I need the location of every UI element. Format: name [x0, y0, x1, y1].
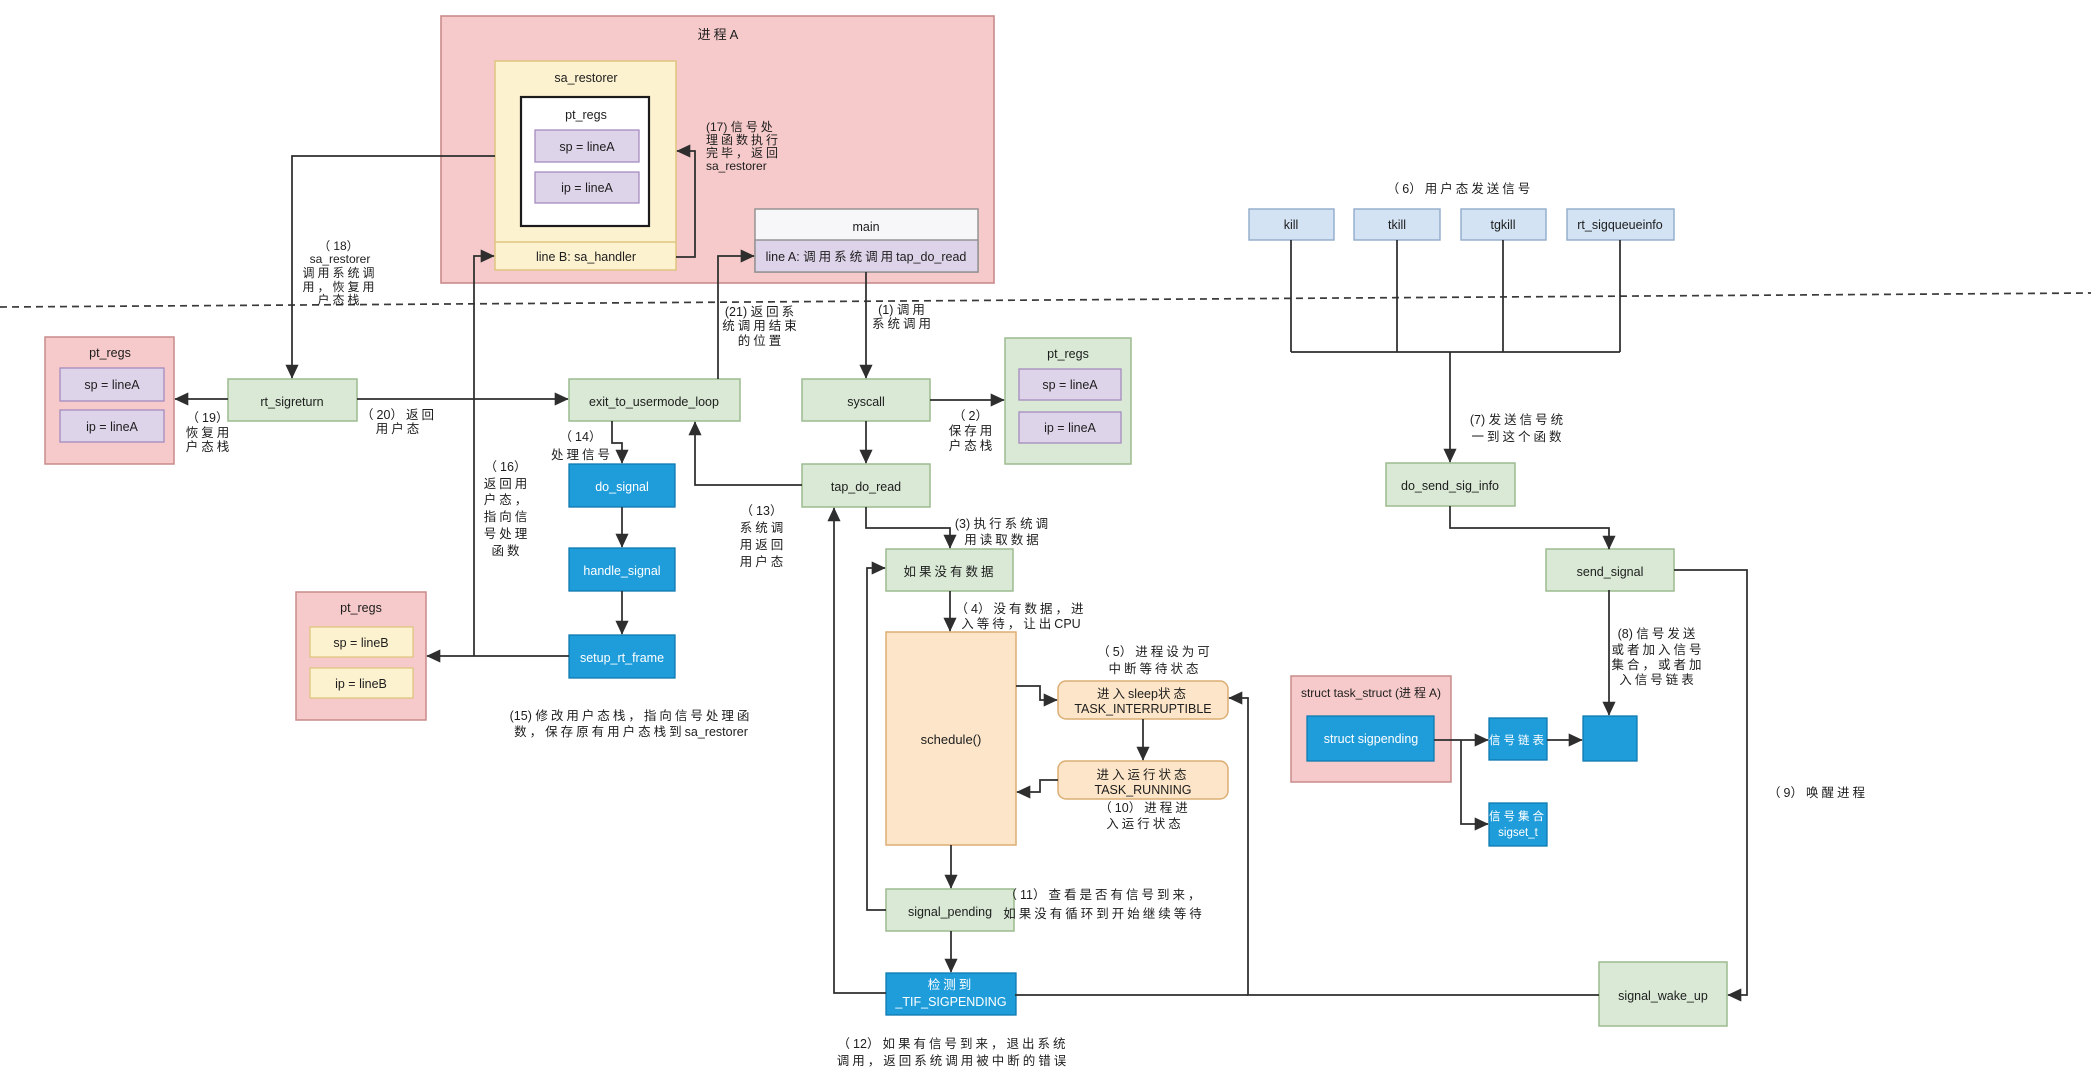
wire kill down — [1290, 240, 1292, 352]
svg-text:（19）: （19） — [187, 411, 232, 425]
wire handle_signal to setup_rt_frame — [621, 591, 623, 634]
svg-text:(15) 修改用户态栈，指向信号处理函: (15) 修改用户态栈，指向信号处理函 — [510, 708, 753, 723]
wire (11) signal_pending loop back to 如果没有数据 — [867, 568, 886, 910]
wire schedule to TASK_INTERRUPTIBLE — [1016, 686, 1057, 700]
wire (1) main to syscall — [865, 272, 867, 378]
svg-text:户态栈: 户态栈 — [949, 438, 996, 453]
box struct task_struct (进程A) — [1291, 676, 1451, 782]
wire rt_sigqueueinfo down — [1619, 240, 1621, 352]
svg-text:pt_regs: pt_regs — [340, 601, 382, 615]
box tgkill — [1461, 209, 1546, 240]
svg-text:(8) 信号发送: (8) 信号发送 — [1618, 626, 1699, 641]
svg-text:完毕，返回: 完毕，返回 — [706, 145, 781, 160]
svg-text:send_signal: send_signal — [1577, 565, 1644, 579]
wire 如果没有数据 to schedule — [949, 591, 951, 631]
field ip = lineA — [535, 172, 639, 203]
box tap_do_read — [802, 464, 930, 507]
svg-text:调用系统调: 调用系统调 — [302, 266, 377, 280]
wire setup_rt_frame to pt_regs lineB — [427, 655, 569, 657]
svg-text:（10）进程进: （10）进程进 — [1099, 800, 1190, 815]
wire (8) send_signal to signal node — [1608, 590, 1610, 715]
svg-text:如果没有循环到开始继续等待: 如果没有循环到开始继续等待 — [1003, 906, 1205, 921]
box setup_rt_frame — [569, 635, 675, 678]
box TASK_RUNNING — [1058, 761, 1228, 799]
box 信号链表 (signal list) — [1489, 718, 1547, 760]
svg-text:tap_do_read: tap_do_read — [831, 480, 901, 494]
svg-text:系统调用: 系统调用 — [872, 317, 934, 331]
box pt_regs (kernel copy, green) — [1005, 338, 1131, 464]
box exit_to_usermode_loop — [569, 379, 740, 421]
svg-text:进入sleep状态: 进入sleep状态 — [1097, 687, 1189, 701]
svg-text:户态栈: 户态栈 — [317, 292, 362, 307]
svg-text:sigset_t: sigset_t — [1498, 827, 1538, 839]
svg-text:号处理: 号处理 — [484, 527, 531, 541]
svg-text:户态，: 户态， — [484, 492, 531, 507]
svg-text:（2）: （2） — [953, 409, 991, 423]
box do_signal — [569, 464, 675, 507]
wire (19) rt_sigreturn to pt_regs — [175, 398, 228, 400]
svg-text:中断等待状态: 中断等待状态 — [1108, 661, 1201, 676]
wire (14) exit loop to do_signal — [612, 421, 622, 463]
svg-text:ip = lineB: ip = lineB — [335, 677, 387, 691]
svg-text:sp = lineB: sp = lineB — [333, 636, 388, 650]
wire signal_pending to _TIF_SIGPENDING — [950, 931, 952, 972]
svg-text:用，恢复用: 用，恢复用 — [302, 280, 377, 294]
svg-text:集合，或者加: 集合，或者加 — [1611, 657, 1704, 672]
wire do_send_sig_info to send_signal — [1450, 506, 1609, 549]
svg-text:rt_sigqueueinfo: rt_sigqueueinfo — [1577, 218, 1663, 232]
svg-text:如果没有数据: 如果没有数据 — [903, 564, 996, 579]
row line A: 调用系统调用tap_do_read — [755, 240, 978, 272]
svg-text:line B: sa_handler: line B: sa_handler — [536, 250, 636, 264]
svg-text:_TIF_SIGPENDING: _TIF_SIGPENDING — [894, 995, 1006, 1009]
wire tkill down — [1396, 240, 1398, 352]
box do_send_sig_info — [1386, 463, 1515, 506]
box 信号集合 sigset_t — [1489, 803, 1547, 846]
box struct sigpending — [1307, 716, 1434, 761]
box main — [755, 209, 978, 272]
svg-text:syscall: syscall — [847, 395, 885, 409]
svg-text:进入运行状态: 进入运行状态 — [1096, 768, 1189, 782]
box tkill — [1354, 209, 1440, 240]
wire (17) sa_handler to sa_restorer — [676, 151, 695, 257]
field sp = lineA — [1019, 369, 1121, 400]
svg-text:（5）进程设为可: （5）进程设为可 — [1097, 644, 1212, 659]
svg-text:setup_rt_frame: setup_rt_frame — [580, 651, 664, 665]
wire do_signal to handle_signal — [621, 507, 623, 547]
svg-text:signal_wake_up: signal_wake_up — [1618, 989, 1708, 1003]
svg-text:信号链表: 信号链表 — [1489, 733, 1547, 747]
box pt_regs (inside sa_restorer) — [521, 97, 649, 226]
wire (21) exit_to_usermode_loop to main lineA — [718, 256, 754, 379]
wire TASK_RUNNING to schedule — [1017, 780, 1058, 792]
svg-text:调用，返回系统调用被中断的错误: 调用，返回系统调用被中断的错误 — [837, 1053, 1070, 1068]
box kill — [1249, 209, 1334, 240]
wire (9) send_signal to signal_wake_up — [1674, 570, 1747, 995]
svg-text:（13）: （13） — [741, 504, 786, 518]
svg-text:进程A: 进程A — [698, 27, 739, 42]
wire struct sigpending junction — [1434, 739, 1461, 741]
svg-text:指向信: 指向信 — [484, 509, 531, 524]
wire (13) tap_do_read to exit_to_usermode_loop — [695, 422, 802, 485]
svg-text:（18）: （18） — [318, 239, 361, 253]
svg-text:用返回: 用返回 — [740, 538, 787, 552]
wire (20) rt_sigreturn to exit_to_usermode_loop — [357, 398, 568, 400]
box pt_regs (saved to sa_restorer, lineB) — [296, 592, 426, 720]
svg-text:用户态: 用户态 — [376, 421, 423, 436]
svg-text:入运行状态: 入运行状态 — [1106, 817, 1184, 831]
wire (18) sa_restorer to rt_sigreturn — [292, 156, 495, 378]
svg-text:用读取数据: 用读取数据 — [964, 532, 1042, 547]
wire (2) syscall to pt_regs — [930, 399, 1004, 401]
svg-text:tkill: tkill — [1388, 218, 1406, 232]
box signal_wake_up — [1599, 962, 1727, 1026]
svg-text:（12）如果有信号到来，退出系统: （12）如果有信号到来，退出系统 — [838, 1036, 1069, 1051]
field ip = lineB — [310, 668, 413, 698]
wire tgkill down — [1502, 240, 1504, 352]
svg-text:do_signal: do_signal — [595, 480, 649, 494]
wire (7) merge to do_send_sig_info — [1449, 352, 1451, 462]
box signal node (unlabeled) — [1583, 716, 1637, 761]
box pt_regs (left, restored) — [45, 337, 174, 464]
svg-text:数，保存原有用户态栈到sa_restorer: 数，保存原有用户态栈到sa_restorer — [514, 724, 748, 739]
svg-text:（4）没有数据，进: （4）没有数据，进 — [956, 601, 1087, 616]
wire (16) up to line B sa_handler — [474, 256, 494, 656]
svg-text:系统调: 系统调 — [740, 521, 787, 535]
box 进程A (process A container) — [441, 16, 994, 283]
svg-text:handle_signal: handle_signal — [583, 564, 660, 578]
svg-text:pt_regs: pt_regs — [89, 346, 131, 360]
wire junction to 信号集合 sigset_t — [1461, 740, 1488, 824]
svg-text:(21) 返回系: (21) 返回系 — [725, 305, 797, 319]
svg-text:（20）返回: （20）返回 — [361, 408, 437, 422]
box TASK_INTERRUPTIBLE — [1058, 681, 1228, 719]
svg-text:ip = lineA: ip = lineA — [86, 420, 138, 434]
svg-text:信号集合: 信号集合 — [1489, 809, 1547, 823]
svg-text:kill: kill — [1284, 218, 1299, 232]
svg-text:pt_regs: pt_regs — [565, 108, 607, 122]
svg-text:户态栈: 户态栈 — [186, 439, 233, 454]
box 检测到 _TIF_SIGPENDING — [886, 973, 1016, 1015]
svg-text:sa_restorer: sa_restorer — [706, 159, 767, 173]
svg-text:exit_to_usermode_loop: exit_to_usermode_loop — [589, 395, 719, 409]
svg-text:（11）查看是否有信号到来，: （11）查看是否有信号到来， — [1004, 888, 1203, 902]
svg-text:入等待，让出CPU: 入等待，让出CPU — [961, 616, 1080, 631]
svg-text:用户态: 用户态 — [740, 554, 787, 569]
wire (3) tap_do_read to 如果没有数据 — [866, 507, 950, 548]
dashed user/kernel boundary line — [0, 293, 2091, 307]
svg-text:main: main — [852, 220, 879, 234]
svg-text:的位置: 的位置 — [738, 333, 785, 348]
wire merge horizontal — [1291, 351, 1620, 353]
box sa_restorer — [495, 61, 676, 270]
wire signal_wake_up to TASK_INTERRUPTIBLE — [1229, 698, 1599, 995]
svg-text:pt_regs: pt_regs — [1047, 347, 1089, 361]
svg-text:TASK_RUNNING: TASK_RUNNING — [1094, 783, 1191, 797]
box 如果没有数据 (if no data) — [886, 549, 1013, 591]
svg-text:signal_pending: signal_pending — [908, 905, 992, 919]
svg-text:sp = lineA: sp = lineA — [559, 140, 615, 154]
wire _TIF_SIGPENDING to wake line — [1015, 994, 1248, 996]
box schedule() — [886, 632, 1016, 845]
box syscall — [802, 379, 930, 421]
svg-text:或者加入信号: 或者加入信号 — [1611, 643, 1704, 657]
svg-text:（14）: （14） — [560, 430, 605, 444]
svg-text:恢复用: 恢复用 — [186, 426, 233, 440]
field sp = lineA — [60, 368, 164, 401]
svg-text:（16）: （16） — [485, 460, 530, 474]
svg-text:检测到: 检测到 — [928, 977, 975, 992]
wire TASK_INTERRUPTIBLE to TASK_RUNNING — [1142, 719, 1144, 760]
field ip = lineA — [1019, 412, 1121, 443]
svg-text:理函数执行: 理函数执行 — [706, 132, 781, 147]
box rt_sigqueueinfo — [1567, 209, 1674, 240]
svg-text:（9）唤醒进程: （9）唤醒进程 — [1768, 785, 1868, 800]
svg-text:struct sigpending: struct sigpending — [1324, 732, 1419, 746]
field sp = lineB — [310, 627, 413, 657]
wire 信号链表 to signal node — [1547, 739, 1582, 741]
svg-text:sp = lineA: sp = lineA — [84, 378, 140, 392]
box send_signal — [1546, 549, 1674, 591]
svg-text:schedule(): schedule() — [921, 732, 982, 747]
svg-text:保存用: 保存用 — [949, 424, 996, 438]
svg-text:入信号链表: 入信号链表 — [1619, 672, 1697, 687]
svg-text:sa_restorer: sa_restorer — [554, 71, 617, 85]
wire junction to 信号链表 — [1461, 739, 1488, 741]
svg-text:tgkill: tgkill — [1490, 218, 1515, 232]
svg-text:rt_sigreturn: rt_sigreturn — [260, 395, 323, 409]
svg-text:(7) 发送信号统: (7) 发送信号统 — [1470, 412, 1566, 427]
box handle_signal — [569, 548, 675, 591]
svg-text:line A: 调用系统调用tap_do_read: line A: 调用系统调用tap_do_read — [766, 250, 967, 264]
wire (12) _TIF_SIGPENDING back to tap_do_read — [834, 508, 886, 993]
wire schedule to signal_pending — [950, 845, 952, 888]
svg-text:处理信号: 处理信号 — [551, 448, 613, 462]
svg-text:(3) 执行系统调: (3) 执行系统调 — [955, 517, 1051, 531]
svg-text:sa_restorer: sa_restorer — [310, 252, 371, 266]
box rt_sigreturn — [228, 379, 357, 421]
svg-text:统调用结束: 统调用结束 — [722, 319, 800, 333]
svg-text:do_send_sig_info: do_send_sig_info — [1401, 479, 1499, 493]
svg-text:(1) 调用: (1) 调用 — [878, 303, 928, 317]
svg-text:返回用: 返回用 — [484, 477, 531, 491]
svg-text:（6）用户态发送信号: （6）用户态发送信号 — [1387, 181, 1533, 196]
svg-text:一到这个函数: 一到这个函数 — [1471, 429, 1564, 444]
svg-text:TASK_INTERRUPTIBLE: TASK_INTERRUPTIBLE — [1074, 702, 1211, 716]
field sp = lineA — [535, 130, 639, 162]
svg-text:(17) 信号处: (17) 信号处 — [706, 120, 776, 134]
field ip = lineA — [60, 410, 164, 442]
svg-text:函数: 函数 — [491, 543, 522, 558]
box signal_pending — [886, 889, 1014, 931]
svg-text:struct task_struct (进程A): struct task_struct (进程A) — [1301, 685, 1441, 700]
svg-text:ip = lineA: ip = lineA — [1044, 421, 1096, 435]
wire syscall to tap_do_read — [865, 421, 867, 463]
svg-text:sp = lineA: sp = lineA — [1042, 378, 1098, 392]
svg-text:ip = lineA: ip = lineA — [561, 181, 613, 195]
